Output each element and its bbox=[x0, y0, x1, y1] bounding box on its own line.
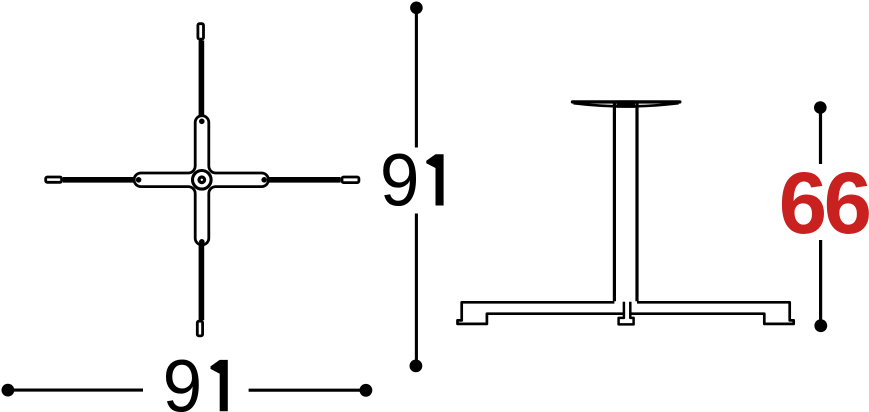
svg-text:9: 9 bbox=[380, 139, 420, 222]
horizontal dimension label 91 bbox=[163, 345, 203, 412]
top view: left foot glide cap bbox=[46, 177, 62, 182]
height dimension dot top bbox=[814, 101, 827, 114]
top view: cross spider bracket bbox=[134, 116, 268, 245]
top view: right foot glide cap bbox=[342, 177, 359, 183]
top view: horizontal leg rod bbox=[63, 177, 341, 183]
height dimension dot bottom bbox=[814, 319, 827, 332]
top view: top foot glide cap bbox=[198, 24, 204, 39]
vertical dimension label 91 bbox=[380, 139, 420, 222]
top view: rivet left bbox=[136, 177, 142, 183]
horizontal dimension line 91 (left segment) bbox=[11, 389, 143, 392]
side view: center adjustable glide bbox=[619, 302, 634, 325]
side view: base right arm and foot outline bbox=[631, 302, 794, 324]
horizontal dimension dot right bbox=[360, 384, 373, 397]
top view: hub inner boss bbox=[197, 175, 206, 184]
vertical dimension dot top bbox=[410, 2, 423, 15]
top view: rivet bottom bbox=[199, 239, 205, 245]
height dimension line 66 (lower segment) bbox=[819, 240, 822, 326]
side view: column top plate (dished underside) bbox=[574, 103, 679, 106]
height dimension line 66 (upper segment) bbox=[819, 108, 822, 164]
side view: column left line bbox=[613, 103, 616, 301]
side view: column boss under plate bbox=[617, 100, 636, 107]
side view: column top plate (top edge) bbox=[573, 100, 680, 103]
svg-text:9: 9 bbox=[163, 345, 203, 412]
top view: hub outer ring bbox=[193, 171, 212, 190]
top view: hub center hole bbox=[201, 179, 203, 181]
horizontal dimension dot left bbox=[2, 384, 15, 397]
top view: rivet top bbox=[199, 119, 205, 125]
vertical dimension line 91 (lower segment) bbox=[415, 214, 418, 366]
top view: bottom foot glide cap bbox=[197, 321, 202, 336]
vertical dimension dot bottom bbox=[410, 360, 423, 373]
svg-text:66: 66 bbox=[779, 155, 869, 252]
vertical dimension line 91 (upper segment) bbox=[415, 8, 418, 148]
top view: vertical leg rod bbox=[199, 41, 205, 321]
horizontal dimension line 91 (right segment) bbox=[249, 389, 363, 392]
side view: base left arm and foot outline bbox=[458, 302, 624, 324]
top view: rivet right bbox=[261, 177, 267, 183]
side view: column right line bbox=[635, 103, 638, 301]
